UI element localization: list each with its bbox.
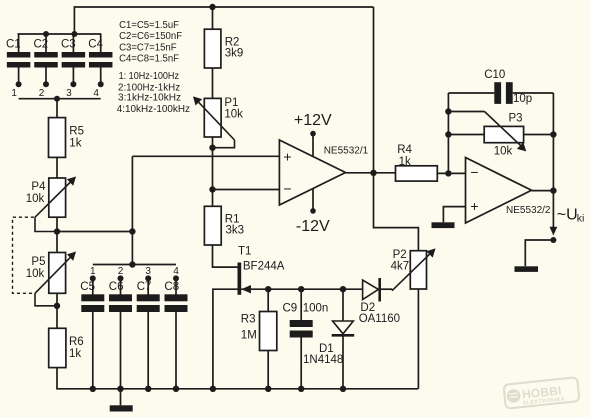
node top bus junction xyxy=(209,4,215,10)
node switch S1a common xyxy=(54,96,60,102)
wire R5 to P4 xyxy=(56,157,58,178)
wire D1 cathode xyxy=(342,335,344,389)
capacitor C4 xyxy=(88,34,112,99)
svg-text:1: 10Hz-100Hz: 1: 10Hz-100Hz xyxy=(119,71,179,82)
svg-text:C2=C6=150nF: C2=C6=150nF xyxy=(119,31,182,42)
node opamp1 output xyxy=(370,170,376,176)
diode D2 OA1160 xyxy=(359,278,400,325)
potentiometer P5 xyxy=(26,252,76,309)
capacitor C3 xyxy=(61,31,85,99)
wire D1 anode xyxy=(342,289,344,321)
resistor R6 xyxy=(49,328,84,367)
svg-text:R4: R4 xyxy=(397,144,412,156)
svg-text:T1: T1 xyxy=(238,246,251,258)
svg-text:C5: C5 xyxy=(80,281,95,293)
svg-text:4: 4 xyxy=(173,266,179,277)
wire switch common line S1b xyxy=(93,264,176,266)
ground output jack xyxy=(515,266,539,272)
capacitor C5 xyxy=(80,266,104,389)
svg-text:−: − xyxy=(283,181,291,197)
node P3 wiper junction xyxy=(445,108,451,114)
svg-text:10k: 10k xyxy=(224,109,243,121)
potentiometer P3 xyxy=(484,112,526,158)
wire opamp2 noninverting input to ground xyxy=(443,207,465,223)
svg-text:4: 4 xyxy=(93,88,99,99)
wire C10 P3 left vertical xyxy=(447,93,449,173)
svg-text:1N4148: 1N4148 xyxy=(303,354,343,366)
wire P3 wiper xyxy=(448,111,484,113)
svg-text:NE5532/2: NE5532/2 xyxy=(506,205,551,216)
svg-text:P3: P3 xyxy=(509,113,523,125)
wire P3 right terminal xyxy=(524,134,554,136)
wire opamp2 output xyxy=(532,190,554,192)
wire switch common line S1a xyxy=(19,98,101,100)
capacitor C6 xyxy=(109,266,132,389)
svg-text:BF244A: BF244A xyxy=(243,261,285,273)
svg-text:3: 3 xyxy=(66,88,72,99)
node switch S1b common xyxy=(129,261,135,267)
node bus C8 xyxy=(173,386,179,392)
capacitor C1 xyxy=(6,34,30,99)
svg-text:1k: 1k xyxy=(69,137,81,149)
wire P4 to P5 xyxy=(56,217,58,252)
svg-text:C1: C1 xyxy=(6,39,21,51)
node bus C7 xyxy=(145,386,151,392)
watermark HOBBI ELEKTRONIKA logo xyxy=(503,377,579,409)
node P3 right junction xyxy=(550,131,556,137)
capacitor C8 xyxy=(164,266,187,389)
wire C10 left xyxy=(448,92,494,94)
svg-text:1M: 1M xyxy=(241,330,257,342)
op-amp U1 NE5532/1 xyxy=(279,140,368,205)
svg-text:-12V: -12V xyxy=(296,218,330,235)
wire C10 right xyxy=(513,92,554,94)
svg-text:3: 3 xyxy=(145,266,151,277)
potentiometer P1 xyxy=(193,96,243,150)
svg-text:C3=C7=15nF: C3=C7=15nF xyxy=(119,42,177,53)
svg-text:C4: C4 xyxy=(88,39,103,51)
wire opamp1 noninverting input xyxy=(132,155,279,157)
wire top horizontal bus xyxy=(74,7,373,34)
ganged link P4-P5 dashed xyxy=(13,217,35,293)
svg-text:10k: 10k xyxy=(494,146,513,158)
svg-text:C6: C6 xyxy=(109,281,124,293)
op-amp U2 NE5532/2 xyxy=(466,158,551,224)
node bus T1 xyxy=(210,386,216,392)
value table text xyxy=(119,20,182,65)
potentiometer P4 xyxy=(26,177,76,235)
capacitor C7 xyxy=(137,266,160,389)
svg-text:C9: C9 xyxy=(283,303,298,315)
node R4 output junction xyxy=(445,170,451,176)
svg-text:C2: C2 xyxy=(34,39,49,51)
svg-text:R5: R5 xyxy=(69,125,84,137)
svg-text:10p: 10p xyxy=(513,93,532,105)
svg-text:C8: C8 xyxy=(164,281,179,293)
wire T1 source left xyxy=(213,289,238,389)
output arrow Uki xyxy=(550,191,585,243)
wire R6 to ground bus xyxy=(57,368,418,389)
wire P4 junction to node A xyxy=(57,231,132,233)
transistor T1 BF244A xyxy=(238,246,285,295)
resistor R5 xyxy=(49,118,85,158)
svg-text:OA1160: OA1160 xyxy=(359,313,400,325)
node D1 anode xyxy=(340,286,346,292)
wire right vertical C10 to output xyxy=(552,93,554,191)
svg-text:R3: R3 xyxy=(241,314,256,326)
wire R5 top xyxy=(56,99,58,118)
wire node A vertical xyxy=(131,156,133,264)
svg-text:C1=C5=1.5uF: C1=C5=1.5uF xyxy=(119,20,179,31)
resistor R4 xyxy=(396,144,438,181)
node T1 drain R3 xyxy=(265,286,271,292)
svg-text:10k: 10k xyxy=(26,193,45,205)
svg-text:3:1kHz-10kHz: 3:1kHz-10kHz xyxy=(118,93,181,104)
capacitor C10 xyxy=(484,69,532,105)
svg-text:P2: P2 xyxy=(393,249,407,261)
terminal +12V xyxy=(310,131,316,137)
wire D2 cathode to P2 wiper xyxy=(381,288,392,290)
resistor R1 xyxy=(204,206,244,245)
wire P2 bottom to ground bus xyxy=(417,289,419,389)
svg-text:4:10kHz-100kHz: 4:10kHz-100kHz xyxy=(117,104,190,115)
wire C1-C4 top bus xyxy=(18,33,102,35)
svg-text:4k7: 4k7 xyxy=(391,261,410,273)
svg-text:3k9: 3k9 xyxy=(225,47,244,59)
wire output terminal to ground xyxy=(525,240,553,266)
svg-text:10k: 10k xyxy=(26,268,45,280)
wire C9 bottom xyxy=(300,338,302,389)
resistor R2 xyxy=(204,29,243,68)
wire minus12V stub xyxy=(312,188,314,211)
wire plus12V stub xyxy=(312,134,314,157)
svg-text:2: 2 xyxy=(39,88,45,99)
wire ground stub bottom xyxy=(120,389,122,406)
node opamp2 output xyxy=(550,187,556,193)
svg-text:1k: 1k xyxy=(399,156,411,168)
node bus C9 xyxy=(298,386,304,392)
svg-text:100n: 100n xyxy=(303,303,329,315)
wire R3 top xyxy=(267,289,269,311)
svg-text:C3: C3 xyxy=(61,39,76,51)
wire P1 to R1 xyxy=(212,137,214,206)
node P3 left junction xyxy=(445,131,451,137)
terminal -12V xyxy=(310,208,316,214)
node bus C6 ground xyxy=(117,386,123,392)
capacitor C2 xyxy=(34,31,58,99)
wire opamp1 inverting input xyxy=(213,189,280,191)
svg-text:P5: P5 xyxy=(31,256,45,268)
potentiometer P2 xyxy=(391,248,436,290)
wire opamp1 output to R4 xyxy=(346,172,396,174)
wire P3 left terminal xyxy=(448,134,484,136)
svg-text:P1: P1 xyxy=(224,97,238,109)
svg-text:+: + xyxy=(470,198,478,214)
ground main xyxy=(110,405,133,411)
wire R4 to opamp2 inverting input xyxy=(437,172,465,174)
wire R2 to P1 xyxy=(212,68,214,98)
capacitor C9 xyxy=(283,303,329,338)
svg-text:1: 1 xyxy=(90,266,96,277)
wire R1 to T1 gate xyxy=(213,245,238,267)
node A junction xyxy=(129,228,135,234)
svg-text:~U: ~U xyxy=(557,207,578,224)
node opamp1 inverting xyxy=(209,186,215,192)
svg-text:+12V: +12V xyxy=(294,112,332,129)
svg-text:3k3: 3k3 xyxy=(226,225,245,237)
svg-text:D1: D1 xyxy=(319,343,334,355)
svg-text:P4: P4 xyxy=(31,181,46,193)
wire R2 top xyxy=(212,7,214,29)
diode D1 1N4148 xyxy=(303,321,354,366)
node bus C5 xyxy=(90,386,96,392)
svg-text:2: 2 xyxy=(118,266,124,277)
svg-text:+: + xyxy=(283,148,291,164)
svg-text:R1: R1 xyxy=(225,213,240,225)
node C9 top xyxy=(298,286,304,292)
node bus D1 xyxy=(340,386,346,392)
wire R3 bottom xyxy=(267,351,269,389)
node bus R3 xyxy=(265,386,271,392)
svg-text:−: − xyxy=(470,164,478,180)
resistor R3 xyxy=(241,312,277,351)
wire C9 top xyxy=(300,289,302,320)
wire P5 to R6 xyxy=(56,293,58,328)
svg-text:C7: C7 xyxy=(137,281,152,293)
wire feedback vertical to P2 xyxy=(374,7,419,251)
range table text xyxy=(117,71,190,115)
svg-text:C4=C8=1.5nF: C4=C8=1.5nF xyxy=(119,54,179,65)
svg-text:R6: R6 xyxy=(69,336,84,348)
wire T1 drain to AGC net xyxy=(241,288,362,290)
svg-text:NE5532/1: NE5532/1 xyxy=(324,146,369,157)
svg-text:1: 1 xyxy=(11,88,17,99)
ground opamp2 plus input xyxy=(432,222,455,228)
svg-text:ki: ki xyxy=(577,213,585,225)
svg-text:C10: C10 xyxy=(484,69,505,81)
svg-text:1k: 1k xyxy=(69,348,81,360)
